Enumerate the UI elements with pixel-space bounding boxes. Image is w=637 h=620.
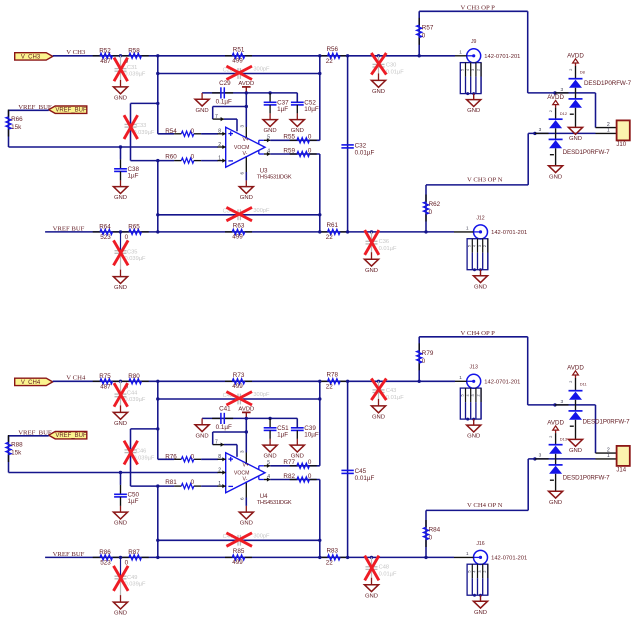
- pin 3 of D12: [535, 127, 549, 133]
- capacitor C30 (DNP, crossed out): [371, 53, 404, 80]
- junction: [424, 230, 427, 233]
- junction: [156, 539, 159, 542]
- ground under C31: [113, 87, 127, 102]
- svg-text:1: 1: [218, 156, 221, 162]
- svg-text:GND: GND: [196, 108, 209, 114]
- svg-text:4: 4: [267, 148, 270, 154]
- svg-text:GND: GND: [372, 415, 385, 421]
- svg-text:3: 3: [478, 245, 482, 247]
- svg-text:J14: J14: [616, 468, 626, 474]
- port VREF_BUF bottom: [49, 432, 87, 440]
- ground under C48: [364, 585, 378, 600]
- capacitor C52: [291, 93, 319, 113]
- connector J13: [455, 365, 520, 421]
- svg-text:0: 0: [422, 32, 426, 39]
- junction: [268, 91, 271, 94]
- pin 3 of D8: [555, 87, 569, 93]
- svg-text:0: 0: [422, 358, 426, 365]
- diode D13 DESD1P0RFW-7: [549, 433, 568, 491]
- wire OP P to diodes: [528, 11, 596, 93]
- junction: [370, 230, 373, 233]
- svg-text:15k: 15k: [11, 124, 22, 131]
- wire feedback vertical lower: [319, 480, 321, 558]
- wire: [158, 485, 174, 487]
- wire: [53, 55, 455, 57]
- svg-text:0.039µF: 0.039µF: [125, 581, 147, 587]
- resistor R62: [423, 195, 440, 222]
- capacitor C29: [212, 80, 233, 105]
- pin 6: [240, 156, 247, 175]
- resistor R52: [93, 48, 120, 66]
- svg-text:R60: R60: [165, 154, 177, 161]
- junction: [268, 417, 271, 420]
- svg-text:0.1µF: 0.1µF: [216, 424, 232, 431]
- capacitor C43 (DNP, crossed out): [371, 379, 404, 406]
- junction: [377, 54, 380, 57]
- svg-text:V-: V-: [243, 477, 248, 483]
- wire node B vertical: [157, 486, 159, 557]
- wire: [8, 110, 10, 147]
- svg-text:V CH4 OP N: V CH4 OP N: [467, 502, 503, 509]
- wire VOCM: [9, 146, 218, 148]
- junction: [156, 397, 159, 400]
- svg-text:8: 8: [218, 454, 221, 460]
- junction: [377, 380, 380, 383]
- diode D11 DESD1P0RFW-7: [569, 378, 588, 439]
- svg-text:AVDD: AVDD: [567, 364, 584, 371]
- label D11 part number: [583, 418, 631, 425]
- junction: [533, 132, 536, 135]
- ground under C38: [113, 187, 127, 202]
- svg-text:GND: GND: [365, 593, 378, 599]
- svg-text:1: 1: [466, 226, 469, 231]
- svg-text:DESD1P0RFW-7: DESD1P0RFW-7: [563, 475, 611, 482]
- wire OP P: [419, 337, 528, 382]
- junction: [318, 397, 321, 400]
- capacitor C51: [264, 418, 289, 438]
- svg-text:487: 487: [100, 58, 111, 65]
- svg-text:AVDD: AVDD: [547, 419, 564, 426]
- wire: [201, 93, 203, 99]
- junction: [156, 484, 159, 487]
- capacitor C39: [291, 418, 319, 438]
- wire: [201, 458, 218, 460]
- junction: [245, 417, 248, 420]
- svg-text:2: 2: [483, 570, 487, 572]
- wire: [9, 109, 49, 111]
- svg-text:C31: C31: [127, 65, 137, 71]
- resistor R73: [225, 372, 252, 390]
- wire AVDD rail: [202, 92, 297, 94]
- svg-text:C32: C32: [355, 143, 367, 150]
- ground under C50: [113, 512, 127, 527]
- pin 3: [240, 125, 247, 139]
- svg-text:0.039µF: 0.039µF: [125, 256, 147, 262]
- resistor R86: [93, 549, 120, 567]
- resistor R55: [283, 134, 316, 143]
- ground under C51: [263, 445, 277, 460]
- svg-text:499: 499: [232, 234, 243, 241]
- wire feedback vertical upper: [319, 381, 321, 466]
- svg-text:R66: R66: [11, 116, 23, 123]
- svg-text:2: 2: [218, 467, 221, 473]
- svg-text:V-: V-: [243, 151, 248, 157]
- svg-text:R87: R87: [128, 549, 140, 556]
- ground under C30: [371, 80, 385, 95]
- svg-text:0.01µF: 0.01µF: [355, 150, 375, 157]
- svg-text:C44: C44: [127, 390, 137, 396]
- pin 1 of J14: [596, 453, 617, 459]
- lead of C37: [269, 105, 271, 114]
- pin 2: [218, 467, 226, 474]
- wire feedback upper: [158, 398, 320, 400]
- svg-text:300pF: 300pF: [253, 533, 270, 539]
- junction: [318, 213, 321, 216]
- svg-text:GND: GND: [114, 521, 127, 527]
- ground under D13: [549, 491, 563, 506]
- pin 7: [213, 439, 224, 446]
- svg-text:0: 0: [191, 128, 195, 135]
- wire OP N from diodes: [528, 132, 595, 134]
- svg-text:499: 499: [232, 559, 243, 566]
- junction: [346, 54, 349, 57]
- resistor R81: [165, 479, 201, 489]
- resistor R65: [122, 224, 149, 242]
- capacitor C32: [341, 143, 374, 157]
- svg-text:R64: R64: [99, 224, 111, 231]
- resistor R51: [225, 46, 252, 64]
- svg-text:142-0701-201: 142-0701-201: [491, 230, 527, 236]
- capacitor C46 (DNP, crossed out): [124, 441, 155, 465]
- ground under op-amp: [239, 512, 253, 527]
- pin 5: [259, 135, 271, 144]
- svg-text:2: 2: [569, 381, 573, 383]
- svg-text:V+: V+: [243, 463, 250, 469]
- connector J10: [616, 120, 629, 148]
- ground under C49: [113, 602, 127, 617]
- svg-text:GND: GND: [549, 174, 562, 180]
- wire node A vertical: [157, 381, 159, 459]
- resistor R85: [225, 548, 252, 566]
- svg-text:V CH4: V CH4: [66, 375, 86, 382]
- svg-text:GND: GND: [114, 195, 127, 201]
- pin 2: [218, 142, 226, 149]
- svg-text:R52: R52: [99, 48, 111, 55]
- svg-text:VREF_BUF: VREF_BUF: [55, 433, 87, 439]
- junction: [119, 145, 122, 148]
- svg-text:R65: R65: [128, 224, 140, 231]
- svg-text:4: 4: [473, 570, 477, 572]
- svg-text:R80: R80: [128, 373, 140, 380]
- capacitor C41: [212, 406, 233, 431]
- svg-text:3: 3: [561, 399, 564, 405]
- pin 8: [218, 129, 226, 136]
- resistor R84: [423, 520, 440, 547]
- ground under op-amp: [239, 187, 253, 202]
- junction: [156, 427, 159, 430]
- svg-text:300pF: 300pF: [253, 67, 270, 73]
- svg-text:499: 499: [232, 383, 243, 390]
- svg-text:10µF: 10µF: [304, 106, 319, 113]
- junction: [553, 91, 556, 94]
- capacitor C37: [264, 93, 289, 113]
- svg-text:GND: GND: [467, 108, 480, 114]
- capacitor C34 (DNP, crossed out): [223, 207, 270, 220]
- svg-text:GND: GND: [114, 96, 127, 102]
- resistor R77: [283, 459, 316, 468]
- svg-text:487: 487: [100, 384, 111, 391]
- op-amp U4: [226, 453, 265, 493]
- wire: [245, 93, 247, 127]
- wire: [296, 418, 298, 427]
- wire: [347, 56, 349, 232]
- svg-text:0.01µF: 0.01µF: [386, 69, 404, 75]
- svg-text:3: 3: [471, 394, 475, 396]
- capacitor C33 (DNP, crossed out): [124, 115, 155, 139]
- wire OP N: [426, 133, 528, 232]
- junction: [370, 556, 373, 559]
- wire feedback lower: [158, 539, 320, 541]
- junction: [318, 539, 321, 542]
- svg-text:1: 1: [466, 551, 469, 556]
- junction: [346, 556, 349, 559]
- pin 4: [259, 148, 271, 156]
- wire pin7 step: [224, 445, 237, 457]
- svg-text:10µF: 10µF: [304, 431, 319, 438]
- resistor R87: [122, 549, 149, 567]
- port V_CH3: [15, 53, 53, 61]
- ground under D8: [568, 127, 582, 142]
- pin 1: [218, 481, 226, 488]
- label U4: [257, 494, 292, 506]
- net label V CH4 OP N: [467, 502, 503, 509]
- resistor R64: [93, 224, 120, 242]
- svg-text:3: 3: [478, 570, 482, 572]
- svg-text:7: 7: [215, 114, 218, 120]
- wire OP P: [419, 11, 528, 56]
- svg-text:2: 2: [549, 436, 553, 438]
- svg-text:C48: C48: [379, 565, 389, 571]
- connector J12: [454, 215, 527, 271]
- svg-text:GND: GND: [114, 285, 127, 291]
- wire: [201, 133, 218, 135]
- svg-text:1µF: 1µF: [277, 431, 288, 438]
- pin 1 of J10: [596, 128, 617, 134]
- svg-text:J10: J10: [616, 142, 626, 148]
- wire: [201, 160, 218, 162]
- svg-text:THS4531IDGK: THS4531IDGK: [257, 175, 292, 181]
- svg-text:0.039µF: 0.039µF: [124, 397, 146, 403]
- wire: [245, 506, 247, 512]
- pin 2 of J10: [596, 122, 617, 128]
- wire: [158, 458, 174, 460]
- svg-text:AVDD: AVDD: [238, 407, 254, 413]
- svg-text:R81: R81: [165, 479, 177, 486]
- svg-text:5: 5: [468, 245, 472, 247]
- svg-text:DESD1P0RFW-7: DESD1P0RFW-7: [583, 418, 631, 425]
- svg-text:3: 3: [240, 450, 245, 453]
- resistor R79: [417, 343, 434, 370]
- svg-text:4: 4: [466, 394, 470, 396]
- junction: [346, 380, 349, 383]
- svg-text:0.01µF: 0.01µF: [355, 475, 375, 482]
- svg-text:R83: R83: [327, 547, 339, 554]
- wire: [120, 473, 122, 485]
- svg-text:499: 499: [232, 57, 243, 64]
- lead of C52: [296, 113, 298, 119]
- lead of C39: [296, 430, 298, 439]
- svg-text:2: 2: [218, 142, 221, 148]
- svg-text:142-0701-201: 142-0701-201: [484, 379, 520, 385]
- svg-text:0: 0: [191, 453, 195, 460]
- port VREF_BUF top: [49, 106, 87, 114]
- svg-text:R51: R51: [233, 46, 245, 53]
- resistor R75: [93, 373, 120, 391]
- svg-text:0.039µF: 0.039µF: [124, 71, 146, 77]
- svg-text:1: 1: [459, 50, 462, 55]
- svg-text:D12: D12: [560, 111, 568, 116]
- wire feedback lower: [158, 214, 320, 216]
- wire pin7: [213, 432, 247, 445]
- wire: [296, 93, 298, 102]
- ground under C39: [290, 445, 304, 460]
- label D12 part number: [563, 149, 611, 156]
- svg-text:R85: R85: [233, 548, 245, 555]
- svg-text:GND: GND: [474, 610, 487, 616]
- svg-text:J12: J12: [476, 215, 484, 221]
- svg-text:GND: GND: [114, 421, 127, 427]
- svg-text:0: 0: [308, 147, 312, 154]
- lead of C50: [120, 506, 122, 512]
- svg-text:C33: C33: [136, 123, 146, 129]
- junction: [156, 213, 159, 216]
- op-amp U3: [226, 127, 265, 167]
- ground under C52: [290, 120, 304, 135]
- svg-text:DESD1P0RFW-7: DESD1P0RFW-7: [584, 80, 632, 87]
- ground under J9: [467, 94, 481, 115]
- svg-text:1: 1: [607, 128, 610, 134]
- wire OP P to diodes: [528, 337, 596, 405]
- svg-text:142-0701-201: 142-0701-201: [491, 555, 527, 561]
- wire: [245, 172, 247, 180]
- wire OP N: [426, 459, 528, 558]
- capacitor C42 (DNP, crossed out): [223, 392, 270, 405]
- junction: [156, 72, 159, 75]
- svg-text:0: 0: [308, 473, 312, 480]
- junction: [119, 54, 122, 57]
- resistor R58: [122, 48, 149, 66]
- svg-text:R62: R62: [429, 201, 441, 208]
- svg-text:0.01µF: 0.01µF: [379, 571, 397, 577]
- svg-text:C49: C49: [127, 575, 137, 581]
- wire: [270, 479, 320, 481]
- capacitor C50: [114, 485, 139, 505]
- svg-text:7: 7: [215, 439, 218, 445]
- svg-text:C46: C46: [136, 449, 146, 455]
- svg-text:4: 4: [267, 474, 270, 480]
- lead of C50: [120, 497, 122, 506]
- resistor R63: [225, 223, 252, 241]
- resistor R61: [320, 222, 347, 241]
- junction: [418, 54, 421, 57]
- ground under C43: [371, 406, 385, 421]
- svg-text:GND: GND: [372, 89, 385, 95]
- svg-text:V_CH3: V_CH3: [21, 54, 41, 60]
- capacitor C28 (DNP, crossed out): [223, 66, 270, 79]
- wire pin7: [213, 107, 247, 120]
- pin 7: [213, 114, 224, 121]
- pin 6: [240, 482, 247, 501]
- diode D8 DESD1P0RFW-7: [569, 66, 586, 127]
- connector J9: [455, 39, 520, 95]
- junction: [119, 556, 122, 559]
- svg-text:R56: R56: [327, 46, 339, 53]
- svg-text:VOCM: VOCM: [234, 145, 250, 151]
- junction: [318, 556, 321, 559]
- svg-text:3: 3: [471, 69, 475, 71]
- capacitor C31 (DNP, crossed out): [114, 56, 146, 87]
- pin 3 of D13: [535, 453, 549, 459]
- junction: [346, 230, 349, 233]
- junction: [156, 102, 159, 105]
- svg-text:1µF: 1µF: [128, 172, 139, 179]
- diode D12 DESD1P0RFW-7: [549, 108, 568, 166]
- junction: [245, 430, 248, 433]
- connector J16: [454, 541, 527, 597]
- svg-text:4: 4: [466, 69, 470, 71]
- net label V CH3 OP N: [467, 177, 503, 184]
- junction: [418, 380, 421, 383]
- wire: [53, 380, 455, 382]
- svg-text:C35: C35: [127, 250, 137, 256]
- svg-text:22: 22: [326, 234, 334, 241]
- wire C33 branch: [131, 103, 158, 160]
- wire C33 branch: [131, 429, 158, 486]
- resistor R83: [320, 547, 347, 566]
- wire: [45, 231, 454, 233]
- wire pin7 step: [224, 119, 237, 131]
- capacitor C38: [114, 159, 139, 179]
- junction: [318, 380, 321, 383]
- label D13 part number: [563, 475, 611, 482]
- svg-text:6: 6: [240, 497, 245, 500]
- svg-text:R75: R75: [99, 373, 111, 380]
- pin 8: [218, 454, 226, 461]
- wire: [245, 180, 247, 186]
- junction: [156, 230, 159, 233]
- svg-text:D11: D11: [580, 381, 588, 386]
- svg-text:R82: R82: [283, 473, 295, 480]
- ground under J12: [473, 270, 487, 291]
- svg-text:GND: GND: [474, 284, 487, 290]
- svg-text:DESD1P0RFW-7: DESD1P0RFW-7: [563, 149, 611, 156]
- wire: [595, 93, 597, 128]
- resistor R60: [165, 154, 201, 164]
- svg-text:0: 0: [429, 535, 433, 542]
- svg-text:0: 0: [191, 479, 195, 486]
- svg-text:GND: GND: [264, 454, 277, 460]
- lead of C51: [269, 439, 271, 445]
- pin 1: [218, 156, 226, 163]
- svg-text:22: 22: [326, 58, 334, 65]
- ground under D12: [549, 166, 563, 181]
- svg-text:GND: GND: [569, 136, 582, 142]
- wire: [9, 435, 49, 437]
- pin 4: [259, 474, 271, 482]
- svg-text:R59: R59: [283, 147, 295, 154]
- svg-text:5: 5: [267, 460, 270, 466]
- power AVDD: [238, 81, 254, 93]
